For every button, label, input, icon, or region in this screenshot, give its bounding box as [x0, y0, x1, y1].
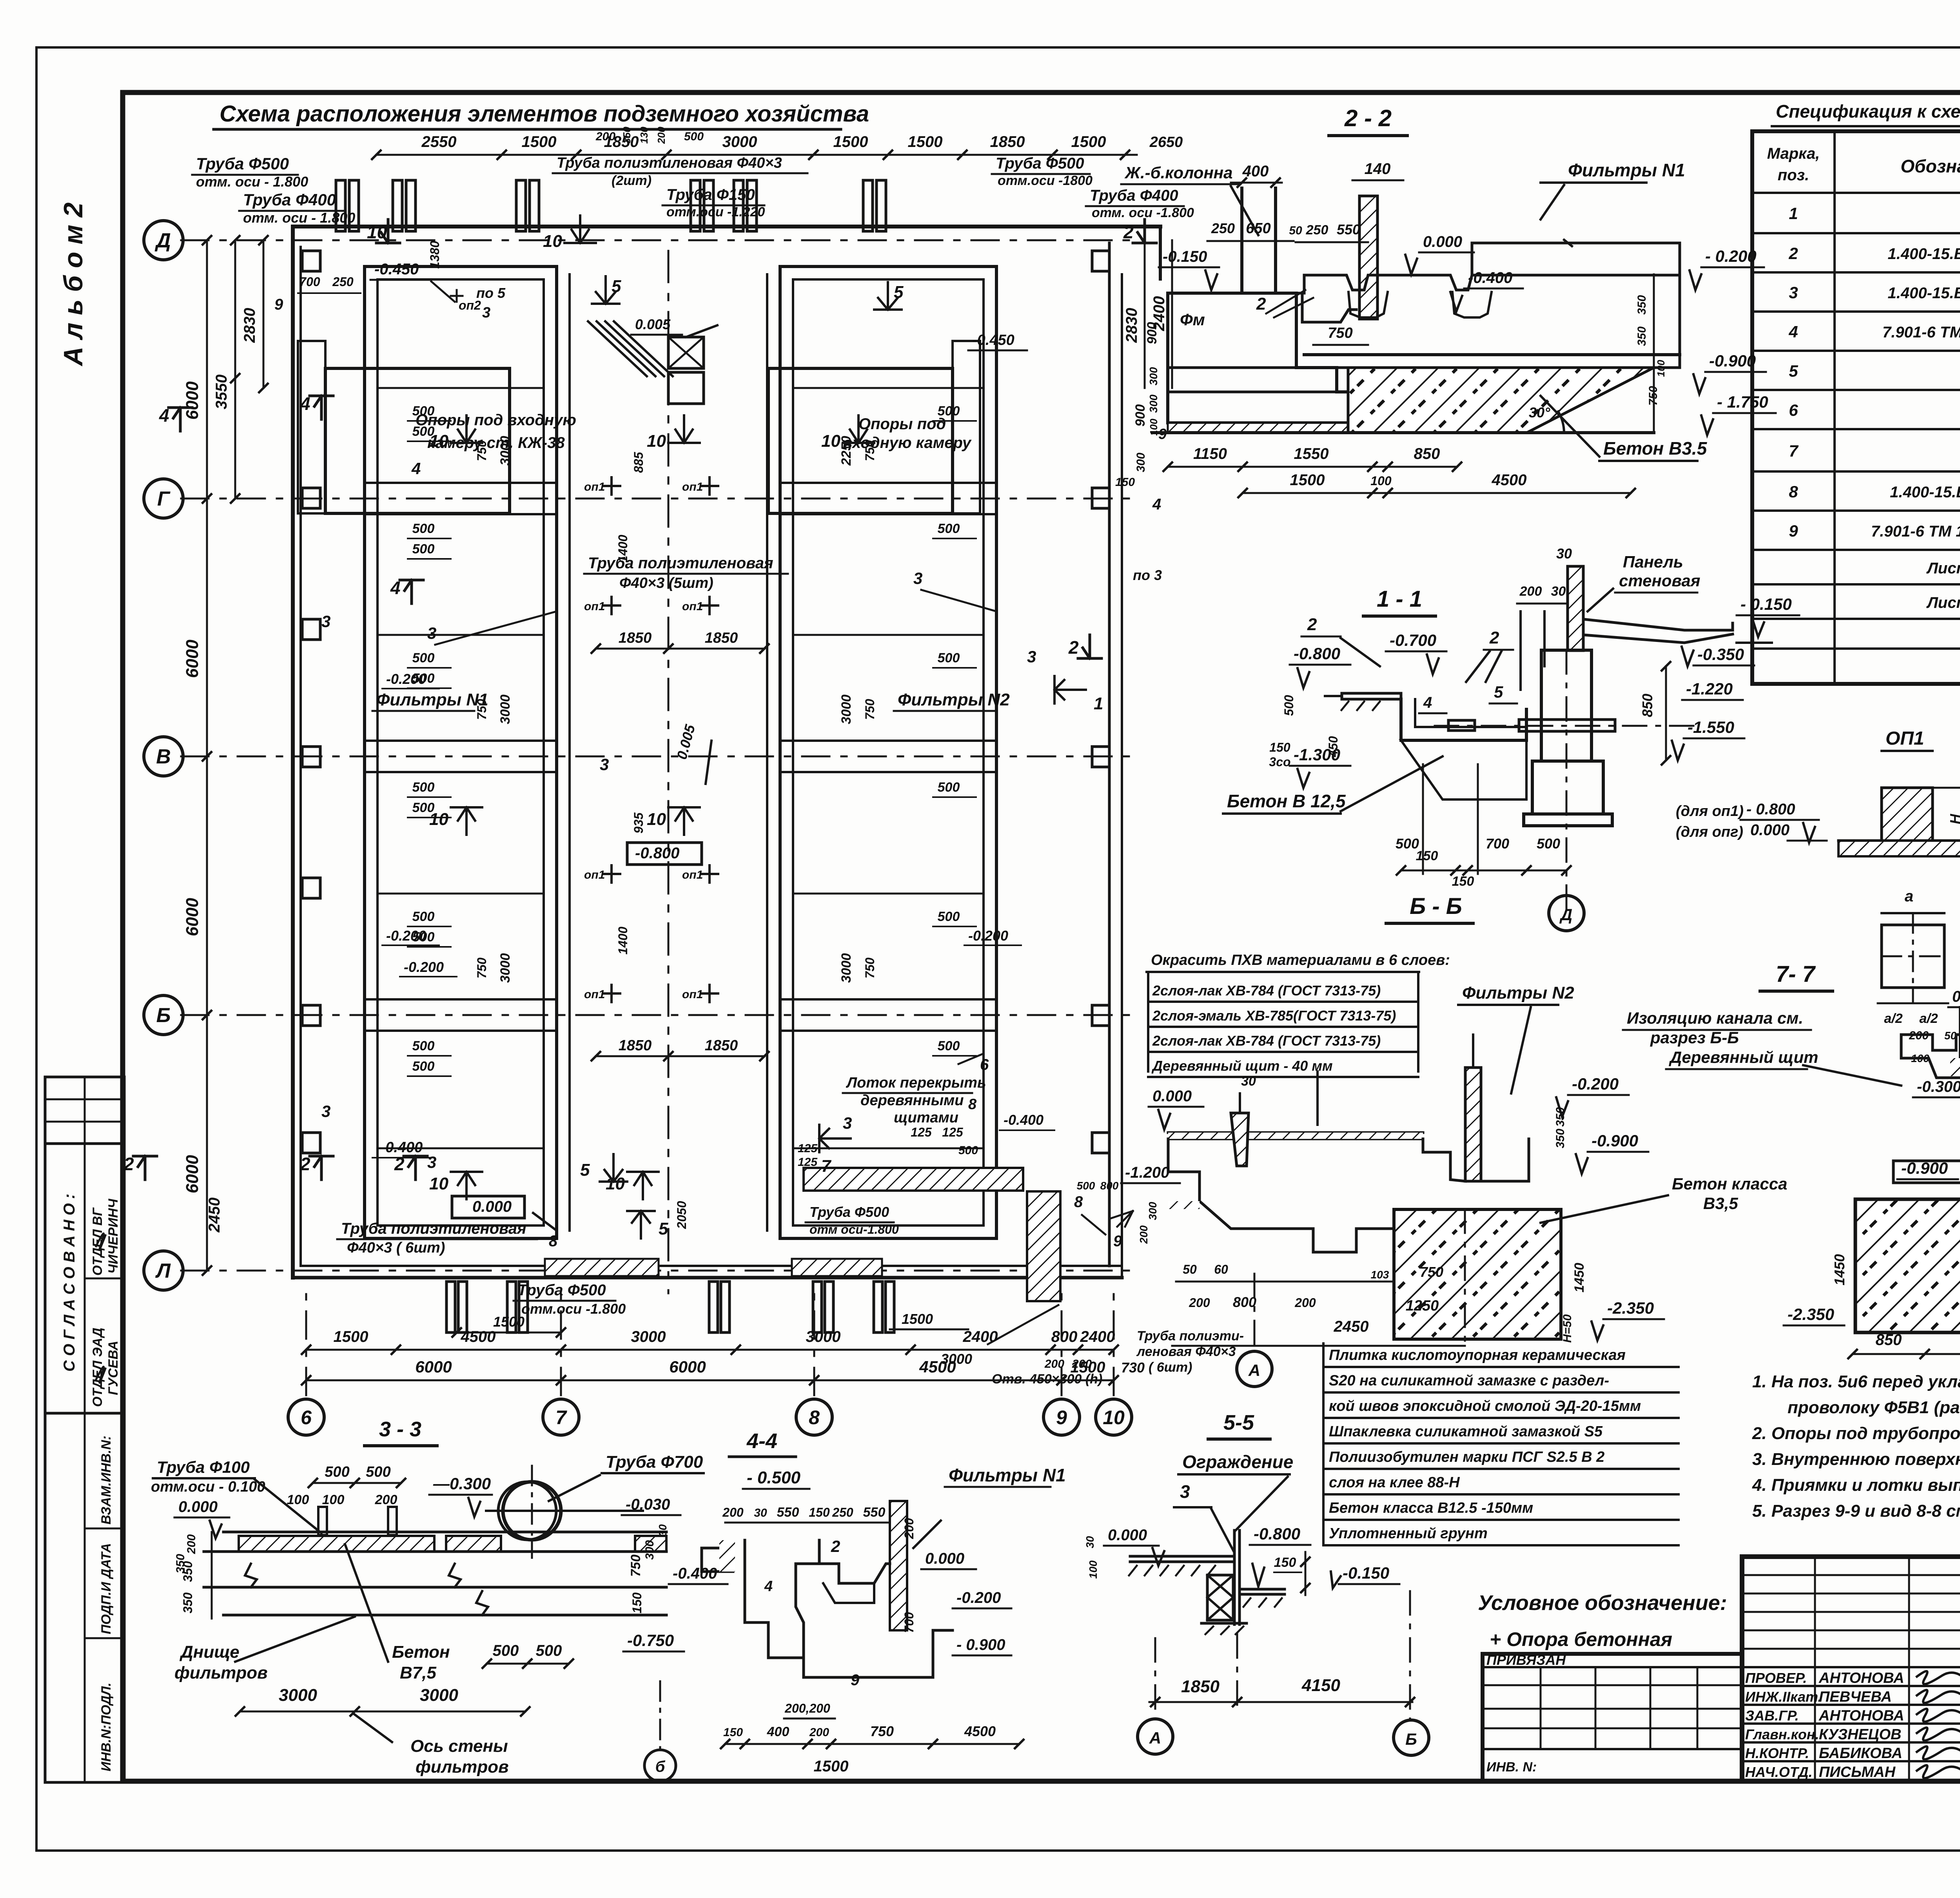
svg-text:4150: 4150 — [1301, 1676, 1340, 1695]
plan: lotok hatch strips — [804, 1168, 1023, 1191]
svg-text:S20 на силикатной замазке с ра: S20 на силикатной замазке с раздел- — [1329, 1372, 1609, 1389]
section B-B top slab — [1168, 1131, 1423, 1134]
svg-text:0.000: 0.000 — [472, 1198, 512, 1215]
svg-text:Ф40×3 (5шт): Ф40×3 (5шт) — [619, 575, 713, 591]
svg-text:- 0.500: - 0.500 — [747, 1468, 801, 1487]
svg-text:1850: 1850 — [619, 1037, 652, 1054]
svg-text:Б: Б — [1405, 1730, 1417, 1748]
svg-text:ЧИЧЕРИНЧ: ЧИЧЕРИНЧ — [106, 1198, 121, 1274]
svg-text:750: 750 — [475, 699, 489, 720]
svg-text:10: 10 — [367, 222, 387, 242]
svg-text:2: 2 — [1068, 637, 1079, 658]
svg-text:- 0.800: - 0.800 — [1746, 801, 1795, 818]
svg-text:300: 300 — [1147, 1202, 1159, 1220]
svg-text:ПИСЬМАН: ПИСЬМАН — [1819, 1764, 1896, 1780]
plan: center channel walls — [555, 266, 558, 1238]
svg-text:200: 200 — [722, 1505, 744, 1519]
svg-text:10: 10 — [647, 810, 666, 829]
svg-text:В7,5: В7,5 — [400, 1663, 436, 1682]
svg-text:3: 3 — [321, 612, 330, 631]
section 1-1 hatch under pit — [1401, 740, 1526, 799]
svg-text:5: 5 — [1789, 362, 1798, 380]
svg-text:1500: 1500 — [1290, 471, 1325, 489]
svg-text:-0.350: -0.350 — [1697, 645, 1744, 663]
title block left attachment — [1483, 1654, 1742, 1781]
svg-text:Труба полиэтиленовая: Труба полиэтиленовая — [341, 1220, 526, 1237]
svg-text:a/2: a/2 — [1884, 1011, 1902, 1026]
svg-text:6000: 6000 — [183, 381, 202, 420]
svg-text:+ Опора бетонная: + Опора бетонная — [1490, 1628, 1672, 1650]
svg-text:оп1: оп1 — [682, 868, 703, 881]
svg-text:350: 350 — [174, 1554, 187, 1574]
svg-text:-1.200: -1.200 — [1125, 1164, 1169, 1181]
svg-text:Бетон класса: Бетон класса — [1672, 1175, 1787, 1193]
svg-text:500: 500 — [366, 1464, 390, 1480]
svg-text:3: 3 — [1027, 647, 1036, 666]
svg-text:250: 250 — [1306, 223, 1328, 237]
svg-text:Л: Л — [155, 1260, 171, 1282]
svg-text:200: 200 — [1044, 1358, 1064, 1370]
svg-text:500: 500 — [412, 909, 435, 924]
svg-text:850: 850 — [1639, 694, 1655, 717]
svg-text:7- 7: 7- 7 — [1776, 961, 1816, 987]
svg-text:7.901-6 ТМ 131.05.00: 7.901-6 ТМ 131.05.00 — [1882, 324, 1960, 341]
svg-text:3. Внутреннюю поверхность прия: 3. Внутреннюю поверхность приямков затер… — [1752, 1450, 1960, 1469]
section B-B panel trapezoid — [1231, 1113, 1249, 1166]
svg-text:- 0.900: - 0.900 — [956, 1636, 1005, 1653]
svg-text:ПРИВЯЗАН: ПРИВЯЗАН — [1486, 1652, 1566, 1668]
svg-text:2550: 2550 — [421, 133, 457, 150]
svg-text:ИНВ. N:: ИНВ. N: — [1486, 1760, 1537, 1775]
svg-text:ОП1: ОП1 — [1886, 728, 1924, 749]
svg-text:500: 500 — [938, 1039, 960, 1053]
svg-text:2: 2 — [1489, 628, 1499, 647]
svg-text:Бетон: Бетон — [392, 1642, 450, 1662]
svg-text:3: 3 — [427, 1153, 436, 1171]
svg-text:Лист 30: Лист 30 — [1926, 594, 1960, 611]
svg-text:2слоя-лак ХВ-784 (ГОСТ 7313-75: 2слоя-лак ХВ-784 (ГОСТ 7313-75) — [1152, 1033, 1381, 1049]
svg-text:4. Приямки и лотки выполнить и: 4. Приямки и лотки выполнить из бетона к… — [1752, 1476, 1960, 1495]
svg-text:-0.200: -0.200 — [386, 928, 426, 944]
svg-text:1850: 1850 — [1181, 1677, 1220, 1696]
svg-text:Б: Б — [156, 1004, 171, 1027]
plan: axis lines — [181, 239, 1137, 241]
svg-text:-0.400: -0.400 — [673, 1565, 717, 1582]
svg-text:5: 5 — [580, 1160, 590, 1180]
svg-text:935: 935 — [632, 812, 646, 834]
svg-text:300: 300 — [1134, 453, 1147, 472]
svg-text:500: 500 — [938, 909, 960, 924]
svg-text:4: 4 — [411, 459, 421, 478]
svg-text:3: 3 — [843, 1114, 852, 1132]
svg-text:1450: 1450 — [1572, 1263, 1587, 1293]
svg-text:-2.350: -2.350 — [1607, 1299, 1654, 1317]
svg-text:1150: 1150 — [1193, 445, 1227, 462]
plan: top opory blocks — [325, 368, 510, 513]
svg-text:30: 30 — [754, 1506, 767, 1519]
svg-text:ИНЖ.IIкат.: ИНЖ.IIкат. — [1745, 1689, 1822, 1705]
svg-text:150: 150 — [1115, 476, 1135, 489]
svg-text:Труба Ф500: Труба Ф500 — [809, 1204, 889, 1220]
svg-text:-0.450: -0.450 — [972, 332, 1014, 348]
svg-text:2 - 2: 2 - 2 — [1344, 105, 1392, 131]
svg-text:2: 2 — [1788, 244, 1798, 263]
svg-text:4: 4 — [1423, 694, 1432, 711]
svg-text:150: 150 — [1274, 1555, 1296, 1570]
svg-text:2слоя-эмаль ХВ-785(ГОСТ 7313-7: 2слоя-эмаль ХВ-785(ГОСТ 7313-75) — [1152, 1008, 1396, 1024]
svg-text:750: 750 — [863, 699, 877, 720]
svg-text:-0.800: -0.800 — [635, 845, 679, 862]
svg-text:6000: 6000 — [183, 898, 202, 936]
svg-text:ЗАВ.ГР.: ЗАВ.ГР. — [1745, 1708, 1799, 1724]
svg-text:2400: 2400 — [963, 1328, 998, 1345]
svg-text:125: 125 — [942, 1125, 964, 1139]
svg-text:500: 500 — [412, 1059, 435, 1074]
plan: section mark 1 right — [1054, 676, 1086, 703]
svg-text:3: 3 — [321, 1102, 330, 1120]
svg-text:Окрасить ПХВ материалами в 6 с: Окрасить ПХВ материалами в 6 слоев: — [1151, 952, 1450, 968]
svg-text:Бетон В 12,5: Бетон В 12,5 — [1227, 791, 1346, 811]
sidebar inv boxes — [45, 1413, 124, 1782]
svg-text:3000: 3000 — [722, 133, 757, 150]
section 2-2 foundation steps — [1168, 293, 1374, 423]
plan: filter bank N2 — [780, 266, 996, 1238]
svg-text:1: 1 — [1789, 204, 1798, 223]
svg-text:30: 30 — [1084, 1536, 1096, 1548]
plan: bottom wall — [293, 1276, 1122, 1280]
svg-text:КУЗНЕЦОВ: КУЗНЕЦОВ — [1819, 1726, 1902, 1743]
section 3-3 bottom dims — [240, 1711, 525, 1713]
svg-text:2: 2 — [300, 1154, 310, 1174]
plan: mark 7 bottom — [819, 1125, 851, 1152]
section B-B foundation hatch — [1394, 1209, 1561, 1339]
svg-text:ПЕВЧЕВА: ПЕВЧЕВА — [1819, 1689, 1892, 1705]
svg-text:В3,5: В3,5 — [1703, 1194, 1738, 1213]
svg-text:6: 6 — [301, 1407, 312, 1428]
svg-text:8: 8 — [549, 1233, 558, 1250]
plan: center axis dashdot — [668, 251, 670, 1293]
svg-text:АНТОНОВА: АНТОНОВА — [1818, 1708, 1904, 1724]
svg-text:3000: 3000 — [839, 694, 854, 724]
svg-text:6: 6 — [1789, 401, 1798, 419]
svg-text:700: 700 — [299, 275, 320, 289]
svg-text:a: a — [1905, 888, 1913, 905]
svg-text:-0.200: -0.200 — [386, 671, 426, 687]
plan: section marks — [310, 395, 333, 397]
svg-text:Фильтры N1: Фильтры N1 — [949, 1465, 1066, 1485]
a/2 detail — [1882, 912, 1944, 914]
title block signatures — [1917, 1671, 1960, 1684]
svg-text:ПРОВЕР.: ПРОВЕР. — [1745, 1670, 1807, 1686]
svg-text:100: 100 — [1655, 360, 1667, 377]
svg-text:щитами: щитами — [894, 1109, 958, 1126]
svg-text:200: 200 — [809, 1726, 829, 1739]
svg-text:-0.300: -0.300 — [1917, 1078, 1960, 1095]
svg-text:Лист 30: Лист 30 — [1926, 560, 1960, 577]
svg-text:Труба Ф500: Труба Ф500 — [996, 155, 1084, 172]
svg-text:0.000: 0.000 — [178, 1498, 218, 1515]
section 4-4 bottom dims — [725, 1743, 1019, 1745]
section 1-1 sloped beam — [1584, 619, 1733, 630]
svg-text:6000: 6000 — [183, 1155, 202, 1193]
svg-text:500: 500 — [958, 1144, 978, 1157]
svg-text:Б - Б: Б - Б — [1410, 894, 1462, 919]
svg-text:550: 550 — [863, 1505, 886, 1520]
svg-text:60: 60 — [1214, 1262, 1228, 1276]
svg-text:350: 350 — [1554, 1129, 1567, 1148]
svg-text:550: 550 — [1337, 221, 1360, 237]
svg-text:Бетон класса В12.5 -150: Бетон класса В12.5 -150мм — [1329, 1500, 1533, 1516]
svg-text:-0.150: -0.150 — [1163, 248, 1207, 265]
svg-text:Д: Д — [1559, 905, 1572, 924]
svg-text:А: А — [1248, 1361, 1260, 1380]
title block staff rows — [1742, 1666, 1960, 1668]
svg-text:500: 500 — [1077, 1180, 1095, 1192]
svg-text:200: 200 — [595, 130, 615, 143]
svg-text:отм. оси - 1.800: отм. оси - 1.800 — [243, 210, 355, 226]
svg-text:1500: 1500 — [814, 1758, 849, 1775]
svg-text:200: 200 — [1138, 1225, 1150, 1244]
svg-text:30: 30 — [1556, 546, 1572, 562]
svg-text:Труба Ф400: Труба Ф400 — [243, 190, 336, 209]
svg-text:3000: 3000 — [498, 694, 513, 724]
axis circle D under 1-1 — [1549, 896, 1584, 931]
svg-text:4500: 4500 — [919, 1358, 956, 1376]
section 2-2 panel wall — [1359, 196, 1377, 319]
svg-text:—0.300: —0.300 — [433, 1474, 491, 1493]
svg-text:125: 125 — [911, 1125, 932, 1139]
svg-text:оп1: оп1 — [584, 480, 605, 493]
svg-text:300: 300 — [1147, 394, 1160, 413]
plan: filter bank N1 — [365, 266, 557, 1238]
svg-text:500: 500 — [938, 404, 960, 419]
svg-text:Труба Ф400: Труба Ф400 — [1090, 187, 1178, 204]
svg-text:Н=50: Н=50 — [1561, 1314, 1574, 1343]
svg-text:8: 8 — [1074, 1193, 1083, 1211]
svg-text:4: 4 — [300, 393, 310, 414]
svg-text:2: 2 — [123, 1154, 134, 1174]
svg-text:100: 100 — [1370, 474, 1392, 488]
svg-text:50: 50 — [1289, 224, 1302, 237]
svg-text:оп1: оп1 — [584, 600, 605, 613]
svg-text:6000: 6000 — [183, 640, 202, 678]
svg-text:150: 150 — [630, 1592, 644, 1613]
svg-text:100: 100 — [287, 1492, 309, 1507]
svg-text:3: 3 — [600, 755, 609, 774]
svg-text:500: 500 — [536, 1642, 562, 1659]
section B-B right panel wall — [1465, 1068, 1481, 1181]
svg-text:1400: 1400 — [616, 535, 630, 562]
svg-text:350: 350 — [181, 1592, 195, 1613]
svg-text:9: 9 — [274, 296, 283, 313]
svg-text:Схема расположения элементов: Схема расположения элементов подземного … — [220, 101, 869, 127]
svg-text:3000: 3000 — [839, 953, 854, 983]
svg-text:10: 10 — [429, 810, 448, 829]
svg-text:1500: 1500 — [908, 133, 943, 150]
svg-text:5: 5 — [659, 1219, 668, 1238]
svg-text:30°: 30° — [1529, 404, 1550, 421]
svg-text:4: 4 — [1788, 323, 1798, 341]
svg-text:1500: 1500 — [493, 1314, 524, 1330]
svg-text:2830: 2830 — [241, 308, 258, 343]
svg-text:1.400-15.В1.410-03: 1.400-15.В1.410-03 — [1890, 484, 1960, 501]
svg-text:отм. оси -1.800: отм. оси -1.800 — [1092, 205, 1194, 220]
svg-text:отм.оси -1.220: отм.оси -1.220 — [666, 205, 765, 219]
svg-text:Труба Ф100: Труба Ф100 — [157, 1458, 250, 1476]
section 5-5 slab — [1130, 1555, 1234, 1558]
plan: top pipes — [336, 180, 345, 231]
svg-text:350: 350 — [1635, 326, 1648, 346]
svg-text:1380: 1380 — [428, 241, 442, 268]
svg-text:30: 30 — [1241, 1074, 1256, 1089]
svg-text:4500: 4500 — [1492, 471, 1527, 489]
plan: top dim row — [376, 154, 1137, 156]
svg-text:2450: 2450 — [1334, 1318, 1369, 1335]
svg-text:3000: 3000 — [806, 1328, 841, 1345]
plan: bottom dim rows — [306, 1349, 1114, 1351]
svg-text:500: 500 — [325, 1464, 349, 1480]
svg-text:650: 650 — [1246, 220, 1270, 237]
svg-text:500: 500 — [938, 651, 960, 665]
svg-text:10: 10 — [543, 232, 562, 251]
svg-text:поз.: поз. — [1778, 167, 1809, 184]
svg-text:500: 500 — [938, 780, 960, 795]
svg-text:500: 500 — [1537, 836, 1560, 852]
svg-text:2050: 2050 — [675, 1201, 689, 1229]
svg-text:6000: 6000 — [415, 1358, 452, 1376]
section 7-7 bottom dims — [1853, 1353, 1960, 1355]
svg-text:1500: 1500 — [833, 133, 868, 150]
svg-text:250: 250 — [1211, 220, 1235, 236]
axis circle b under 4-4 — [644, 1750, 676, 1781]
svg-text:Фильтры N1: Фильтры N1 — [1568, 160, 1685, 180]
axis circle A under B-B — [1237, 1351, 1272, 1387]
svg-text:2450: 2450 — [206, 1198, 223, 1233]
svg-text:оп1: оп1 — [682, 988, 703, 1001]
svg-text:4: 4 — [159, 405, 169, 426]
svg-text:0.005: 0.005 — [635, 316, 671, 332]
svg-text:4: 4 — [764, 1578, 773, 1595]
section 2-2 hatched soil — [1348, 368, 1654, 433]
svg-text:2: 2 — [1307, 615, 1317, 634]
svg-text:Панель: Панель — [1623, 553, 1683, 571]
svg-text:3: 3 — [913, 569, 922, 587]
svg-text:оп1: оп1 — [584, 988, 605, 1001]
svg-text:-0.200: -0.200 — [968, 928, 1008, 944]
svg-text:кой швов эпоксидной смолой ЭД-: кой швов эпоксидной смолой ЭД-20-15мм — [1329, 1398, 1641, 1414]
svg-text:2830: 2830 — [1123, 308, 1140, 343]
svg-text:750: 750 — [628, 1555, 643, 1577]
svg-text:500: 500 — [1282, 695, 1296, 716]
svg-text:3: 3 — [482, 305, 490, 321]
svg-text:5: 5 — [1494, 683, 1503, 701]
svg-text:-0.800: -0.800 — [1294, 644, 1340, 663]
svg-text:деревянными: деревянными — [860, 1092, 964, 1109]
svg-text:1250: 1250 — [1406, 1298, 1439, 1314]
section 5-5 post — [1233, 1530, 1236, 1624]
svg-text:8: 8 — [968, 1096, 977, 1113]
svg-text:200: 200 — [375, 1492, 397, 1507]
svg-text:слоя на клее 88-Н: слоя на клее 88-Н — [1329, 1474, 1460, 1491]
svg-text:350: 350 — [1635, 295, 1648, 315]
spec table — [1752, 131, 1960, 684]
svg-text:7.901-6 ТМ 131.05.00-01: 7.901-6 ТМ 131.05.00-01 — [1871, 523, 1960, 540]
svg-text:А: А — [1149, 1729, 1161, 1747]
svg-text:350: 350 — [621, 127, 633, 144]
svg-text:150: 150 — [809, 1505, 830, 1519]
svg-text:Д: Д — [154, 229, 171, 252]
svg-text:АНТОНОВА: АНТОНОВА — [1818, 1670, 1904, 1686]
svg-text:Н.КОНТР.: Н.КОНТР. — [1745, 1745, 1809, 1761]
svg-text:800: 800 — [1233, 1294, 1256, 1310]
section 2-2 trench — [1296, 293, 1356, 322]
svg-text:Лоток перекрыть: Лоток перекрыть — [846, 1075, 986, 1091]
svg-text:(2шт): (2шт) — [612, 173, 652, 188]
svg-text:5-5: 5-5 — [1223, 1411, 1254, 1434]
svg-text:1400: 1400 — [616, 926, 630, 954]
svg-text:-0.450: -0.450 — [374, 261, 419, 278]
svg-text:5. Разрез 9-9 и вид 8-8 см: 5. Разрез 9-9 и вид 8-8 см. лист КЖ- 17. — [1752, 1501, 1960, 1521]
svg-text:9: 9 — [1113, 1233, 1122, 1250]
svg-text:-2.350: -2.350 — [1788, 1305, 1834, 1323]
svg-text:-0.900: -0.900 — [1592, 1131, 1638, 1150]
svg-text:450: 450 — [1326, 736, 1340, 758]
svg-text:1850: 1850 — [705, 630, 738, 646]
svg-text:5: 5 — [894, 283, 904, 302]
svg-text:2: 2 — [1123, 222, 1134, 242]
svg-text:2400: 2400 — [1080, 1328, 1115, 1345]
svg-text:ИНВ.N:ПОДЛ.: ИНВ.N:ПОДЛ. — [99, 1682, 114, 1771]
svg-text:Труба полиэти-: Труба полиэти- — [1137, 1329, 1244, 1343]
svg-text:300: 300 — [643, 1540, 656, 1560]
svg-text:2650: 2650 — [1149, 134, 1183, 150]
svg-text:-0.750: -0.750 — [627, 1631, 674, 1650]
svg-text:оп1: оп1 — [682, 600, 703, 613]
svg-text:Фильтры N1: Фильтры N1 — [376, 690, 488, 709]
svg-text:Ф40×3 ( 6шт): Ф40×3 ( 6шт) — [347, 1240, 445, 1256]
section 1-1 pit — [1401, 699, 1526, 740]
svg-text:отм.оси - 0.100: отм.оси - 0.100 — [151, 1479, 265, 1495]
svg-text:фильтров: фильтров — [416, 1757, 509, 1777]
svg-text:125: 125 — [798, 1142, 818, 1155]
svg-text:-0.030: -0.030 — [626, 1496, 670, 1513]
svg-text:Главн.кон.: Главн.кон. — [1745, 1726, 1819, 1742]
svg-text:400: 400 — [767, 1724, 789, 1739]
svg-text:С О Г Л А С О В А Н О :: С О Г Л А С О В А Н О : — [61, 1194, 78, 1372]
plan: bottom pipes row — [446, 1282, 455, 1332]
svg-text:750: 750 — [863, 957, 877, 979]
svg-text:-1.220: -1.220 — [1686, 680, 1733, 698]
svg-text:Полиизобутилен марки ПСГ S2.5: Полиизобутилен марки ПСГ S2.5 В 2 — [1329, 1449, 1604, 1465]
svg-text:3000: 3000 — [420, 1686, 458, 1705]
svg-text:250: 250 — [332, 275, 354, 289]
svg-text:a/2: a/2 — [1919, 1011, 1938, 1026]
svg-text:3со: 3со — [1269, 755, 1290, 769]
plan: outer walls — [293, 225, 1160, 228]
svg-text:стеновая: стеновая — [1619, 571, 1700, 590]
svg-text:550: 550 — [777, 1505, 799, 1520]
svg-text:250: 250 — [832, 1505, 853, 1519]
section 2-2 filter slab profile — [1304, 275, 1680, 290]
section 5-5 bottom dims — [1149, 1701, 1412, 1703]
svg-text:-0.700: -0.700 — [1390, 631, 1436, 649]
svg-text:850: 850 — [1414, 445, 1440, 462]
svg-text:3 - 3: 3 - 3 — [379, 1418, 421, 1441]
svg-text:3000: 3000 — [498, 953, 513, 983]
svg-text:по 5: по 5 — [476, 285, 506, 301]
svg-text:150: 150 — [1416, 848, 1438, 863]
svg-text:200: 200 — [902, 1518, 916, 1539]
